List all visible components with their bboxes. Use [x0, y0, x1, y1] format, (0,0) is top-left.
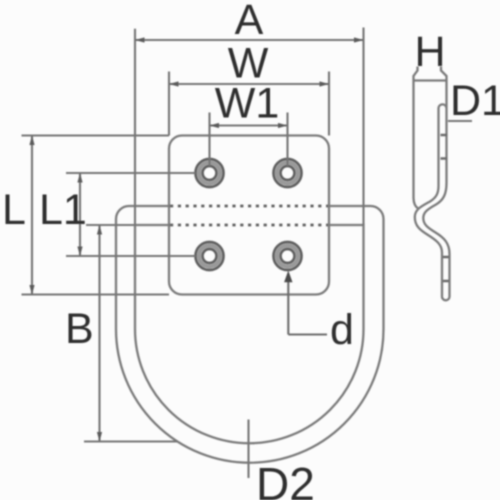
dimension W line with extension lines: [169, 72, 329, 136]
svg-text:D2: D2: [256, 458, 315, 500]
svg-text:D1: D1: [450, 77, 500, 125]
ring outer contour (solid parts, front view): [116, 206, 384, 463]
leader D1: [448, 120, 472, 122]
hole top-right: [274, 159, 302, 187]
svg-text:B: B: [65, 305, 94, 353]
ring inner contour (solid parts, front view): [135, 225, 364, 443]
ring hidden edge (dotted, behind plate, outer top): [170, 205, 329, 208]
mounting plate: [169, 136, 329, 295]
hole bottom-left: [196, 242, 224, 270]
hole top-left: [196, 159, 224, 187]
dimension L1 line with extension lines: [66, 173, 196, 256]
side view lower strip bottom cap: [442, 296, 450, 300]
dimension B line with extension lines: [84, 225, 178, 442]
svg-text:d: d: [330, 306, 354, 354]
leader D2: [247, 420, 249, 479]
side view wire strip upper: [439, 104, 447, 186]
ring hidden edge (dotted, behind plate, inner top): [170, 224, 329, 227]
leader d with arrow to bottom-right hole: [288, 277, 327, 335]
svg-text:W1: W1: [215, 80, 280, 128]
dimension W1 line with extension lines: [210, 113, 288, 167]
side view S-bend channel: [414, 183, 450, 297]
svg-text:A: A: [235, 0, 264, 44]
dimension L line with extension lines: [22, 136, 170, 295]
side view top tab: [414, 67, 447, 199]
dimension A line with extension lines: [135, 28, 364, 226]
svg-text:L: L: [2, 186, 26, 234]
side view strip dash marks: [441, 135, 450, 281]
svg-text:L1: L1: [39, 186, 87, 234]
hole bottom-right: [274, 242, 302, 270]
